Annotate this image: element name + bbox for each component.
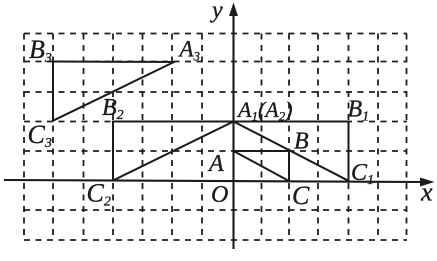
svg-text:C2: C2 [87, 179, 111, 210]
svg-text:O: O [211, 182, 228, 208]
svg-text:A1(A2): A1(A2) [236, 97, 293, 124]
svg-text:C: C [292, 181, 310, 210]
svg-text:C3: C3 [28, 120, 52, 151]
svg-text:B2: B2 [102, 95, 124, 123]
svg-text:A3: A3 [178, 37, 200, 64]
svg-text:B1: B1 [348, 97, 370, 125]
svg-text:B: B [294, 129, 309, 155]
svg-text:C1: C1 [351, 160, 374, 188]
svg-text:y: y [210, 0, 223, 24]
svg-text:A: A [207, 151, 224, 177]
svg-text:x: x [420, 178, 433, 207]
svg-text:B3: B3 [29, 35, 52, 66]
